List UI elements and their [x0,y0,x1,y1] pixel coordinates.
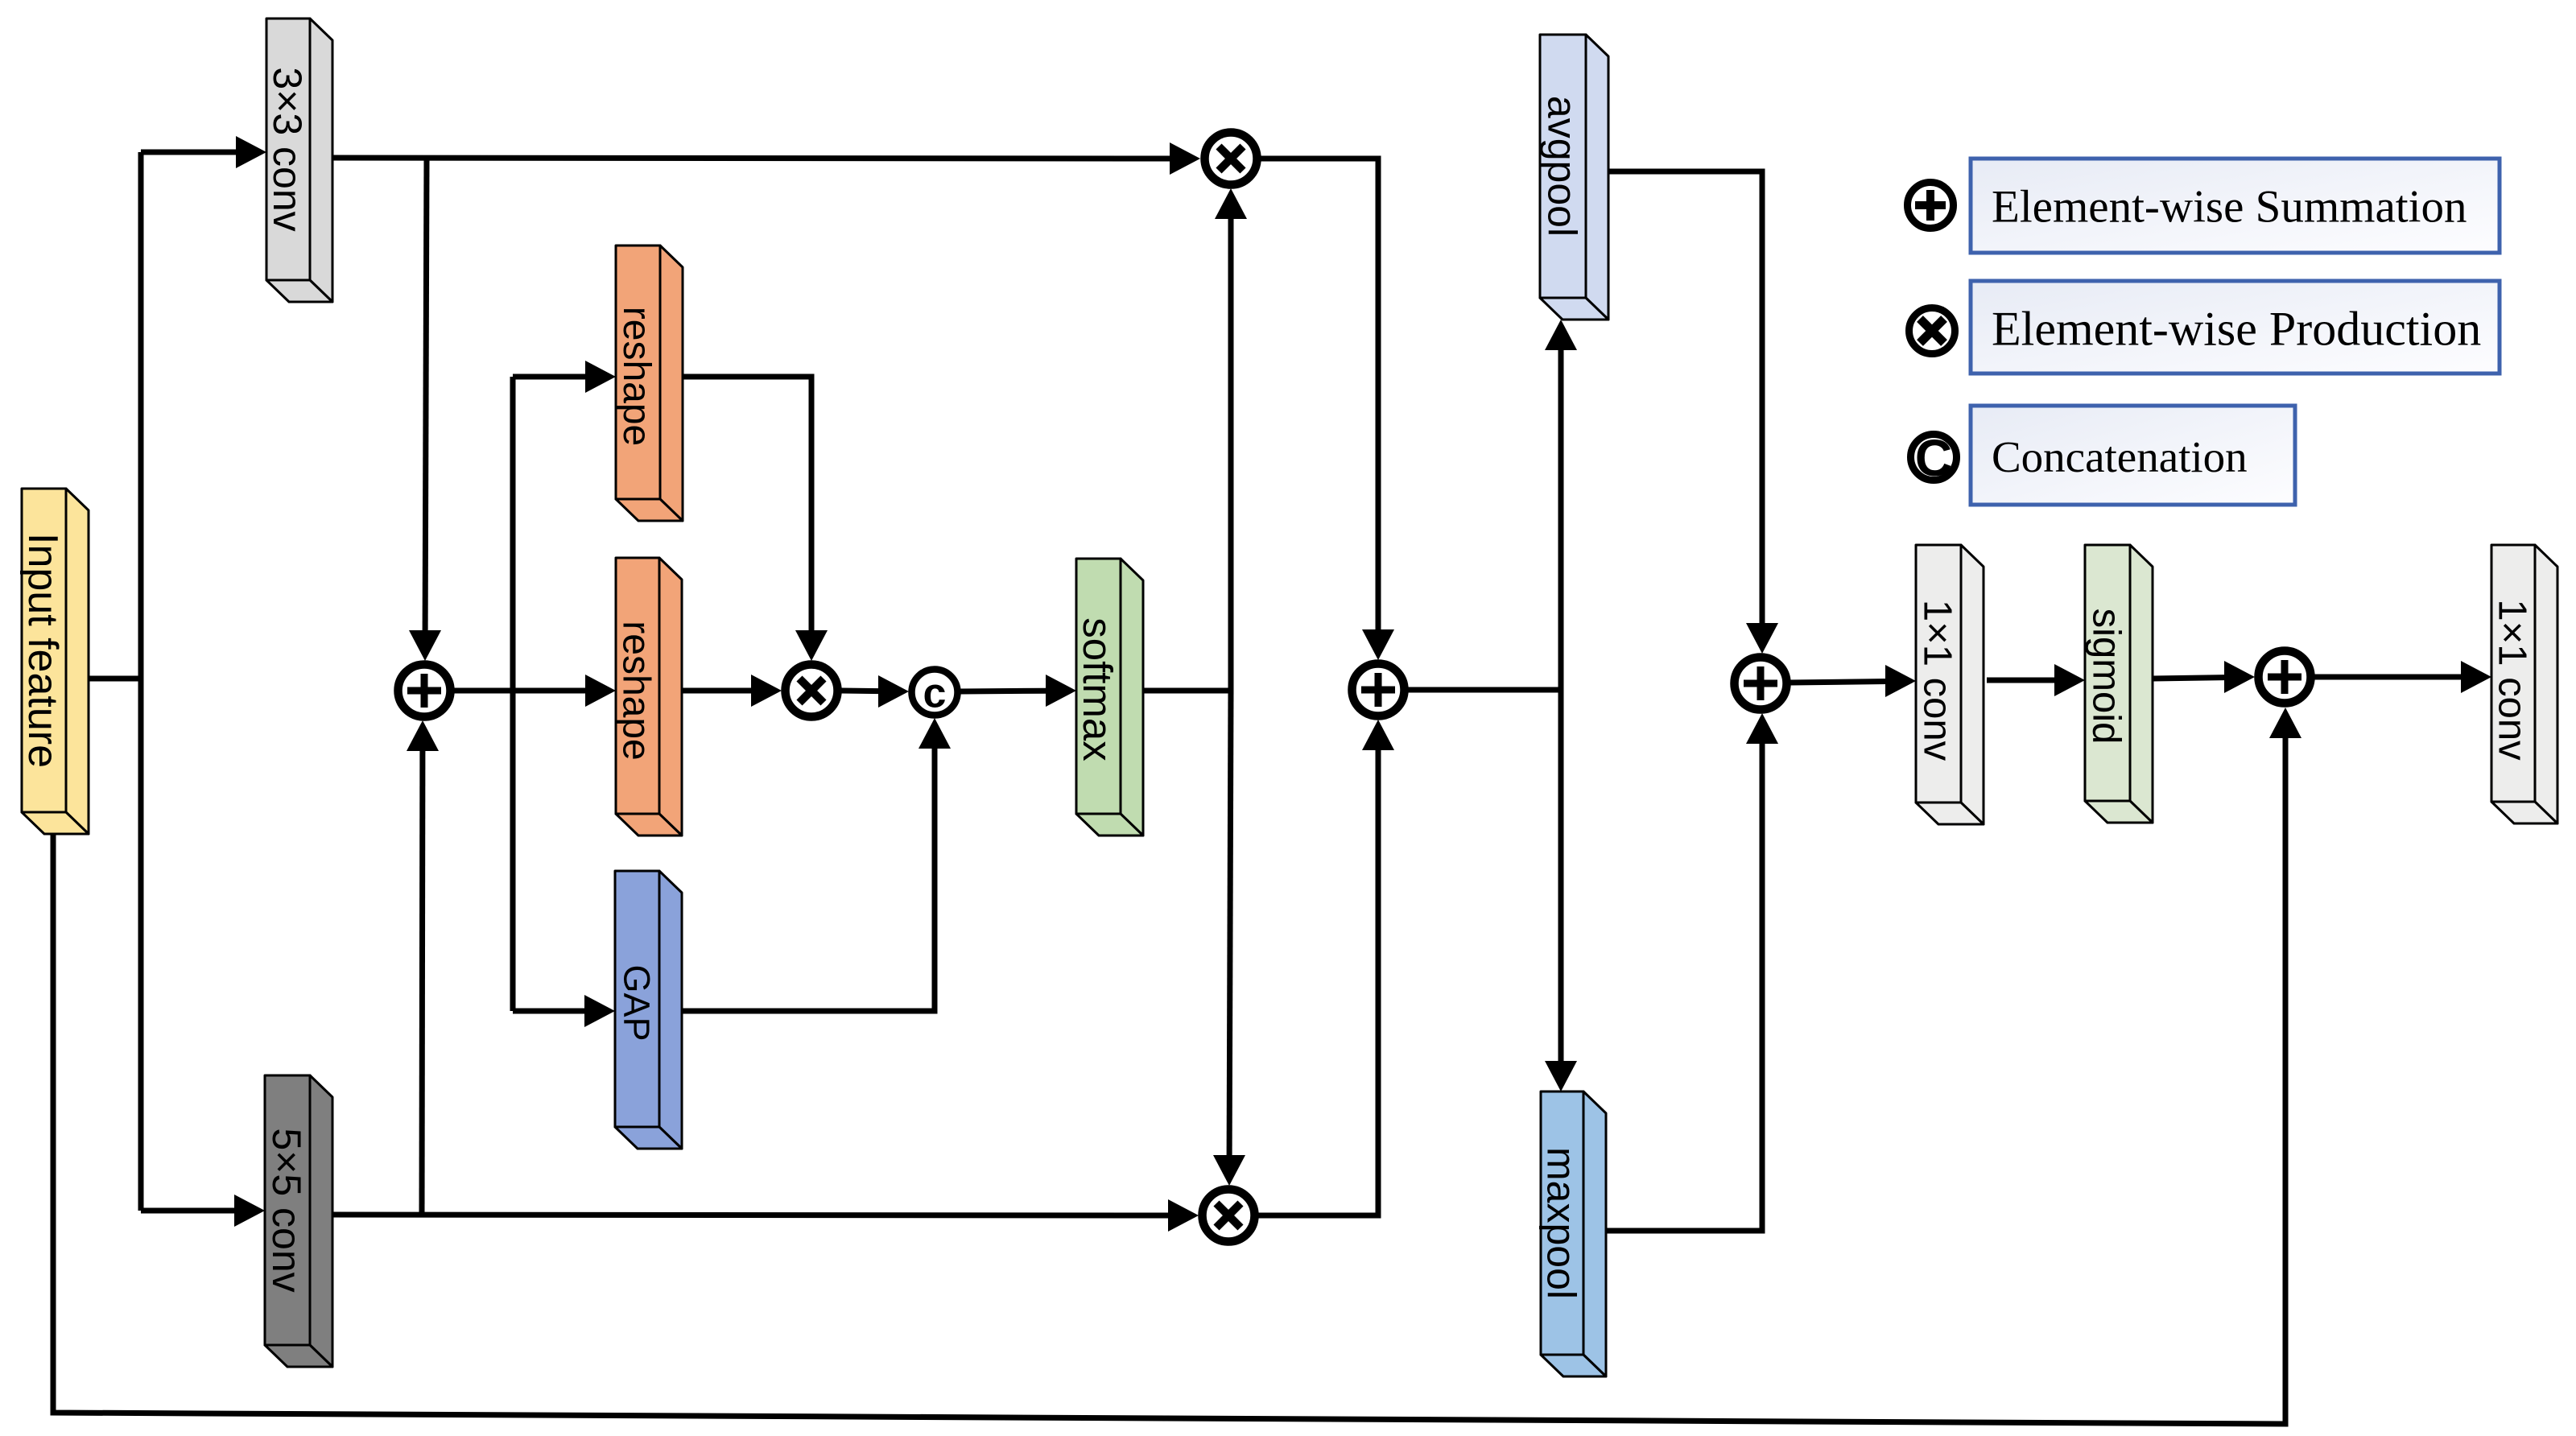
op production-bottom (element-wise production) [1203,1190,1255,1242]
legend box element-wise production [1971,281,2500,373]
op summation4 (element-wise summation) [2259,651,2311,704]
wire junction down to maxpool [1558,690,1564,1063]
svg-text:c: c [923,671,947,717]
svg-text:1×1 conv: 1×1 conv [1915,600,1959,761]
op concat (concatenation) [912,670,958,717]
svg-text:5×5 conv: 5×5 conv [264,1128,309,1292]
wire trunk to 5x5 conv [141,1208,236,1214]
svg-text:reshape: reshape [615,307,658,446]
wire softmax branch up to top production [1228,217,1234,691]
wire 5x5 conv output to bottom production [331,1215,1170,1215]
wire summation4 output to final 1x1 conv [2314,675,2462,680]
op summation2 (element-wise summation) [1352,664,1405,716]
wire 1x1 conv to sigmoid [1987,678,2056,683]
wire input-feature to trunk [88,676,141,682]
wire top production output to summation2 [1261,159,1378,631]
block reshape middle [615,558,682,836]
block softmax [1075,559,1143,836]
svg-text:Element-wise Summation: Element-wise Summation [1992,182,2467,233]
wire maxpool output to summation3 [1606,742,1762,1231]
wire junction to GAP [513,1009,586,1014]
block avgpool [1540,35,1609,320]
block sigmoid [2084,545,2153,823]
op summation1 (element-wise summation) [398,665,451,717]
wire reshape1 output to production-mid [683,377,811,632]
wire residual feedback from input feature [53,737,2285,1424]
wire summation3 output to 1x1 conv [1790,682,1887,683]
wire reshape2 output to production-mid [683,688,753,694]
wire concat output to softmax [960,688,1047,695]
svg-text:1×1 conv: 1×1 conv [2490,599,2533,761]
svg-text:reshape: reshape [615,621,658,760]
block input feature [19,489,89,834]
op legend concatenation symbol (concatenation) [1911,429,1957,487]
svg-text:Input feature: Input feature [19,533,66,768]
wire bottom production output to summation2 [1258,749,1378,1215]
block 5x5 conv [264,1075,332,1367]
wire branch vertical at junction [510,377,516,1011]
wire junction up to avgpool [1558,349,1564,690]
wire production-mid to concat [841,688,880,695]
wire branch down to summation1 [425,158,427,632]
op production-top (element-wise production) [1205,133,1257,185]
legend box concatenation [1971,406,2295,505]
wire trunk to 3x3 conv [141,150,237,155]
op legend production symbol (element-wise production) [1909,308,1955,354]
block maxpool [1539,1091,1607,1376]
block GAP [615,871,682,1149]
svg-text:GAP: GAP [616,964,657,1041]
block 1x1 conv final [2490,545,2557,823]
wire softmax output junction [1141,688,1231,694]
wire junction to reshape1 [513,374,587,380]
legend box element-wise summation [1971,159,2500,253]
wire sigmoid to summation4 [2153,678,2226,679]
block reshape upper [615,246,683,521]
svg-text:C: C [1915,429,1952,487]
op summation3 (element-wise summation) [1735,658,1787,710]
wire summation1 output to reshape2 [454,688,587,694]
op legend summation symbol (element-wise summation) [1908,183,1954,229]
svg-text:softmax: softmax [1075,617,1121,761]
wire branch up to summation1 [419,749,426,1215]
wire summation2 output junction [1408,687,1561,693]
block 3x3 conv [265,19,332,302]
svg-text:maxpool: maxpool [1539,1147,1584,1299]
svg-text:sigmoid: sigmoid [2084,609,2128,745]
op production-mid (element-wise production) [786,665,838,717]
wire GAP output to concat [682,747,935,1011]
wire vertical trunk [138,152,144,1211]
svg-text:avgpool: avgpool [1540,96,1585,237]
svg-text:Concatenation: Concatenation [1992,432,2248,481]
wire softmax branch down to bottom production [1229,691,1231,1157]
svg-text:3×3 conv: 3×3 conv [265,67,310,231]
wire 3x3 conv output to top production [328,158,1171,159]
wire avgpool output to summation3 [1608,171,1762,625]
svg-text:Element-wise Production: Element-wise Production [1992,303,2481,356]
block 1x1 conv first [1915,545,1984,824]
